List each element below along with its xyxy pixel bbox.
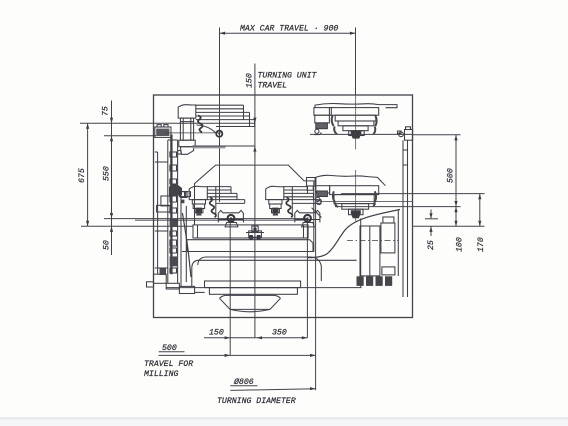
dimension 500 travel line <box>159 354 316 356</box>
machine body trapezoid <box>195 165 314 252</box>
dimension 25 vertical + short line <box>425 218 438 220</box>
dimension 550/75/50 vertical <box>111 101 113 256</box>
svg-text:150: 150 <box>246 73 255 88</box>
mid-right turning head <box>307 170 386 221</box>
806 text underline <box>230 385 257 387</box>
svg-text:Ø806: Ø806 <box>233 377 254 387</box>
MACHINE INTERNALS <box>135 95 413 312</box>
svg-text:MAX CAR TRAVEL · 900: MAX CAR TRAVEL · 900 <box>240 25 338 34</box>
left column bearing unit <box>155 125 171 138</box>
aux gray line <box>135 219 308 221</box>
dimension 500 right vertical <box>455 135 457 227</box>
rail line under mid-right head <box>320 201 413 203</box>
top-left head foot <box>180 147 193 155</box>
right lower blocks <box>347 210 398 277</box>
extension line left (x=219.5) <box>219 28 221 203</box>
svg-text:150: 150 <box>209 329 224 338</box>
left extension line D y=226.3 <box>81 225 193 227</box>
center tool clamp <box>246 226 264 240</box>
svg-text:MILLING: MILLING <box>144 370 178 379</box>
bottom extension x=307.4 <box>306 222 308 338</box>
svg-text:75: 75 <box>102 106 111 116</box>
bottom extension x=230.2 <box>229 222 231 356</box>
dimension texts <box>78 25 486 407</box>
top-left milling head: arm block <box>178 105 196 118</box>
dimension: MAX CAR TRAVEL &#183; 900 line <box>220 32 356 34</box>
motor coupling dark cluster <box>169 184 182 196</box>
arrows <box>86 32 481 391</box>
top-left head ram lines <box>196 105 255 126</box>
dimension 170 vertical <box>479 194 481 227</box>
right column verticals <box>403 140 408 297</box>
bowl <box>220 295 281 298</box>
top-left head hook arm + cutter <box>197 125 217 133</box>
short diagonal <box>312 208 322 218</box>
top-left head hatch detail <box>198 116 203 133</box>
shadow under foot <box>193 146 226 148</box>
right extension y=206.6 <box>335 206 461 208</box>
mid-center milling head (copy) <box>266 186 322 227</box>
motor boxes left <box>161 196 171 206</box>
centerline / turning unit travel dimension line <box>254 64 256 339</box>
svg-text:TURNING UNIT: TURNING UNIT <box>258 72 318 81</box>
svg-text:170: 170 <box>477 237 486 252</box>
dimension 675 vertical <box>87 123 89 226</box>
extension line right (x=355.5) <box>355 28 357 96</box>
chip pan <box>205 281 301 288</box>
top-left head spindle housing <box>179 118 195 147</box>
500 text underline <box>159 351 185 353</box>
hose curve <box>182 213 191 277</box>
svg-text:100: 100 <box>456 237 465 252</box>
diameter 806 leader line <box>230 389 315 391</box>
carriage rail line right <box>310 133 413 135</box>
dark feet right <box>357 276 393 286</box>
bed <box>166 219 362 288</box>
svg-text:350: 350 <box>272 329 287 338</box>
svg-text:50: 50 <box>103 240 112 250</box>
svg-text:550: 550 <box>103 166 112 181</box>
left column thick rail <box>170 135 172 275</box>
top-left head spindle centerline <box>166 132 223 134</box>
dimension 150/350 line <box>204 337 307 339</box>
left extension line A y=123.2 <box>80 122 255 124</box>
table <box>182 225 321 281</box>
right extension y=226.3 <box>413 225 485 227</box>
svg-text:500: 500 <box>162 344 177 353</box>
left extension line C y=218.6 <box>104 218 308 220</box>
mid-left milling head <box>189 186 245 227</box>
left feet steps <box>154 274 167 283</box>
svg-text:675: 675 <box>78 168 87 183</box>
svg-text:500: 500 <box>447 168 456 183</box>
right extension y=134.8 <box>413 134 461 136</box>
main diagonal chute <box>308 210 400 258</box>
scan artifact band <box>0 417 568 420</box>
rail slide blocks <box>170 218 177 227</box>
left column verticals <box>147 140 187 287</box>
left extension line B y=135.7 <box>104 135 156 137</box>
line y=146 (turning travel lower) <box>193 145 255 147</box>
main machine border <box>154 95 413 318</box>
bottom extension x=315.6 <box>315 181 317 390</box>
svg-text:TRAVEL: TRAVEL <box>258 82 288 91</box>
right border bracket <box>398 127 413 140</box>
svg-text:25: 25 <box>427 240 436 250</box>
svg-text:TRAVEL FOR: TRAVEL FOR <box>144 360 193 369</box>
svg-text:TURNING DIAMETER: TURNING DIAMETER <box>217 397 296 406</box>
right extension y=193.6 <box>341 193 485 195</box>
top-right turning head <box>314 95 397 150</box>
